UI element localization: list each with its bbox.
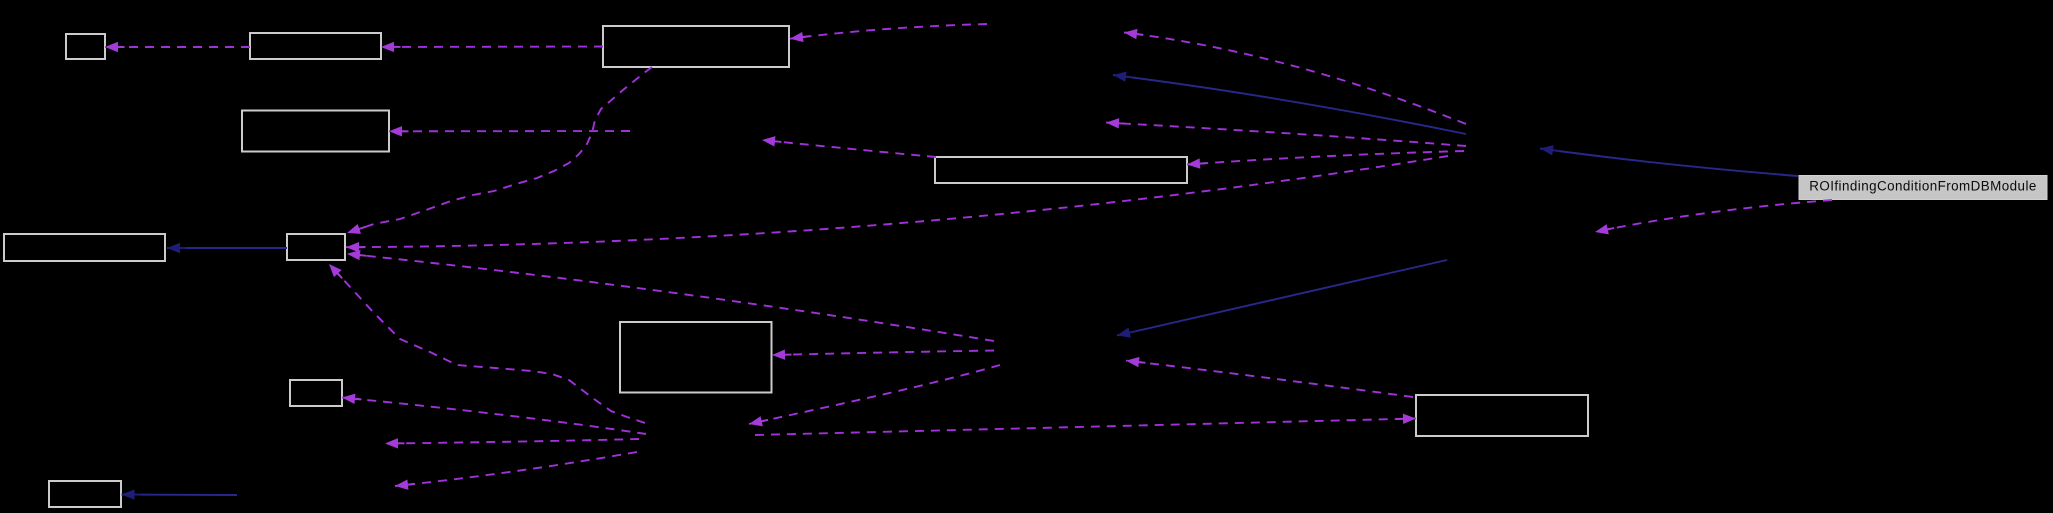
edge K to N2 (dashed) bbox=[1126, 361, 1413, 397]
edge N4 to I (dashed) bbox=[342, 398, 646, 435]
edge Module-node to G (long dashed) bbox=[346, 156, 1448, 247]
node B bbox=[250, 33, 381, 59]
edge Module-node to node-top (dashed) bbox=[1124, 33, 1466, 125]
edge N2 to G (dashed) bbox=[347, 254, 994, 341]
edge N5 to K (dashed, arrowhead pointing right) bbox=[755, 419, 1416, 436]
edge node-top to C (dashed) bbox=[790, 24, 987, 39]
node H (tall box) bbox=[620, 322, 772, 393]
node E (wide box) bbox=[935, 157, 1187, 183]
node D (two-line box) bbox=[242, 111, 389, 152]
node G (small hub box) bbox=[287, 234, 345, 260]
svg-text:ROIfindingConditionFromDBModul: ROIfindingConditionFromDBModule bbox=[1809, 179, 2037, 194]
edge node-e to J (blue solid) bbox=[122, 494, 238, 497]
node A (small box top-left) bbox=[66, 34, 105, 59]
edge N2 to N5 (dashed) bbox=[749, 365, 1000, 424]
node F bbox=[4, 234, 165, 261]
edge Module-node to E (dashed) bbox=[1187, 151, 1464, 165]
edge Module-node to node-b (dashed) bbox=[1106, 123, 1466, 146]
edge N4 to node-f (dashed) bbox=[385, 439, 639, 444]
edge Module-node to node-mid (dashed, visible part left of E) bbox=[762, 140, 936, 157]
node J (bottom-left box) bbox=[49, 481, 121, 507]
node C (two-line box) bbox=[603, 26, 789, 67]
node I (small box) bbox=[290, 380, 342, 406]
edge node-i to N2 (blue solid) bbox=[1117, 260, 1447, 336]
edge G to F (blue solid) bbox=[167, 247, 287, 249]
edge N4 to G bottom (dashed S-curve) bbox=[329, 264, 645, 423]
edge gray node to Module-node (blue solid) bbox=[1540, 149, 1798, 177]
node ROIfindingConditionFromDBModule (gray central node) bbox=[1799, 176, 2047, 200]
edge N4 to node-g (dashed) bbox=[395, 452, 637, 486]
edge Module-node to PathElement-node (blue solid) bbox=[1113, 75, 1466, 134]
edge N2 to H (dashed) bbox=[772, 351, 994, 356]
edge B to A (dashed) bbox=[105, 46, 250, 48]
edge C to B (dashed) bbox=[381, 46, 603, 49]
edge node-mid to D (dashed) bbox=[389, 130, 630, 132]
edge C to G (long dashed S-curve) bbox=[347, 67, 652, 233]
node K (two-line box right) bbox=[1416, 395, 1588, 436]
edge gray node to node-c (dashed) bbox=[1595, 200, 1832, 232]
